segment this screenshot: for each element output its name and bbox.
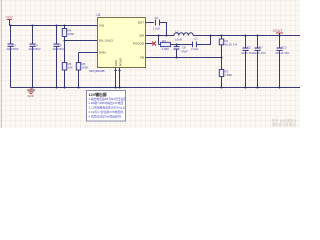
svg-text:GND: GND: [28, 94, 34, 98]
sheet left edge: [1, 0, 3, 128]
wire SW: [146, 35, 175, 37]
svg-text:10uF/50V: 10uF/50V: [28, 47, 41, 51]
wire AAM: [79, 52, 98, 54]
note text frame 12V output: [87, 91, 127, 122]
svg-text:47pF: 47pF: [181, 50, 188, 54]
resistor R6 AAM: [76, 53, 88, 88]
power port VCC: [6, 16, 14, 26]
svg-text:C2: C2: [247, 45, 251, 49]
svg-text:4.C2与C7建议用X7R材质的: 4.C2与C7建议用X7R材质的: [89, 110, 124, 114]
capacitor C4: [28, 26, 41, 88]
svg-text:EN_UVLO: EN_UVLO: [99, 39, 114, 43]
wire IC GND pin 2: [119, 68, 121, 88]
op-amp U1 buck converter IC: [97, 13, 146, 67]
svg-text:10uF/50V: 10uF/50V: [6, 47, 19, 51]
svg-text:1.输出电压由R1与R2分压设定: 1.输出电压由R1与R2分压设定: [89, 97, 127, 101]
wire BST cap to SW: [160, 23, 166, 36]
ground GND power port: [27, 88, 35, 98]
svg-text:SW: SW: [139, 34, 144, 38]
node FB-R1R2: [221, 57, 223, 59]
node dots on GND rail: [32, 87, 34, 89]
node VOUT-C10: [279, 35, 281, 37]
no-connect X on PGOOD: [152, 42, 156, 46]
capacitor C2 output: [241, 36, 254, 88]
svg-text:2.2uF: 2.2uF: [153, 27, 161, 31]
svg-text:AAM: AAM: [99, 51, 106, 55]
capacitor C7 output: [253, 36, 266, 88]
svg-text:2.2uF: 2.2uF: [191, 47, 199, 51]
resistor R2 divider bottom: [219, 58, 232, 88]
svg-text:C6: C6: [154, 16, 158, 20]
capacitor C5 input: [52, 26, 65, 88]
wire VIN rail: [11, 25, 98, 27]
svg-text:U1: U1: [97, 13, 101, 17]
node R3-C8: [176, 44, 178, 46]
node EN junction: [64, 40, 66, 42]
capacitor C3: [6, 26, 19, 88]
resistor R5 EN low side: [62, 41, 72, 88]
svg-text:22uF 16V: 22uF 16V: [253, 51, 266, 55]
power port VOUT: [273, 29, 284, 35]
svg-text:22uF 16V: 22uF 16V: [241, 51, 254, 55]
svg-text:7.68K: 7.68K: [225, 73, 233, 77]
svg-text:PGOOD: PGOOD: [133, 42, 145, 46]
svg-text:100K: 100K: [82, 65, 89, 69]
capacitor C8 47pF: [174, 45, 188, 58]
capacitor C6 bootstrap: [153, 16, 161, 31]
svg-text:VIN: VIN: [99, 24, 104, 28]
wire IC GND pin 1: [115, 68, 117, 88]
svg-text:10uH: 10uH: [175, 38, 182, 42]
svg-text:100uF 16V: 100uF 16V: [275, 51, 289, 55]
svg-text:R3: R3: [162, 39, 166, 43]
svg-text:40.2K 1%: 40.2K 1%: [225, 42, 238, 46]
node rail-C5: [56, 25, 58, 27]
node rail-C4: [32, 25, 34, 27]
resistor R3 ripple injection: [159, 36, 177, 51]
capacitor C10 output bulk: [275, 36, 289, 88]
svg-text:PGND: PGND: [118, 58, 122, 66]
wire EN: [65, 40, 98, 42]
node SW-R3: [158, 35, 160, 37]
svg-text:10uF/50V: 10uF/50V: [52, 47, 65, 51]
svg-text:100K: 100K: [68, 32, 75, 36]
wire PGOOD stub: [146, 43, 153, 45]
svg-text:GND: GND: [114, 60, 118, 66]
node VOUT-C2: [245, 35, 247, 37]
svg-text:L1: L1: [176, 30, 180, 34]
wire BST: [146, 22, 155, 24]
svg-text:3.L1的饱和电流需大于5A以上: 3.L1的饱和电流需大于5A以上: [89, 106, 126, 110]
node FB-C8: [176, 57, 178, 59]
inductor L1: [174, 30, 193, 42]
node VCC-rail: [10, 25, 12, 27]
node VOUT-C7: [257, 35, 259, 37]
resistor R4 pull-up: [62, 26, 74, 41]
wire FB: [146, 57, 222, 59]
node SW-C6: [166, 35, 168, 37]
svg-text:2.05K: 2.05K: [162, 47, 170, 51]
svg-text:MPQ8633B: MPQ8633B: [89, 69, 105, 73]
svg-text:硬件研习社笔记: 硬件研习社笔记: [272, 122, 296, 127]
svg-text:20K: 20K: [68, 65, 73, 69]
svg-text:C1: C1: [194, 37, 198, 41]
pin number marks: [114, 70, 117, 72]
wire VOUT rail: [193, 35, 300, 37]
wire GND rail: [11, 87, 301, 89]
svg-text:2.R2取7.68K时输出12V电压: 2.R2取7.68K时输出12V电压: [89, 101, 124, 105]
resistor R1 divider top: [219, 36, 237, 58]
node rail-R4: [64, 25, 66, 27]
node C1-VOUT: [210, 35, 212, 37]
svg-text:FB: FB: [140, 56, 144, 60]
svg-text:BST: BST: [138, 21, 144, 25]
capacitor C1 feedforward: [177, 36, 211, 51]
svg-text:C10: C10: [281, 45, 287, 49]
svg-text:C7: C7: [259, 45, 263, 49]
svg-text:5.布局时注意SW需远离FB: 5.布局时注意SW需远离FB: [89, 114, 122, 118]
node VOUT-R1: [221, 35, 223, 37]
